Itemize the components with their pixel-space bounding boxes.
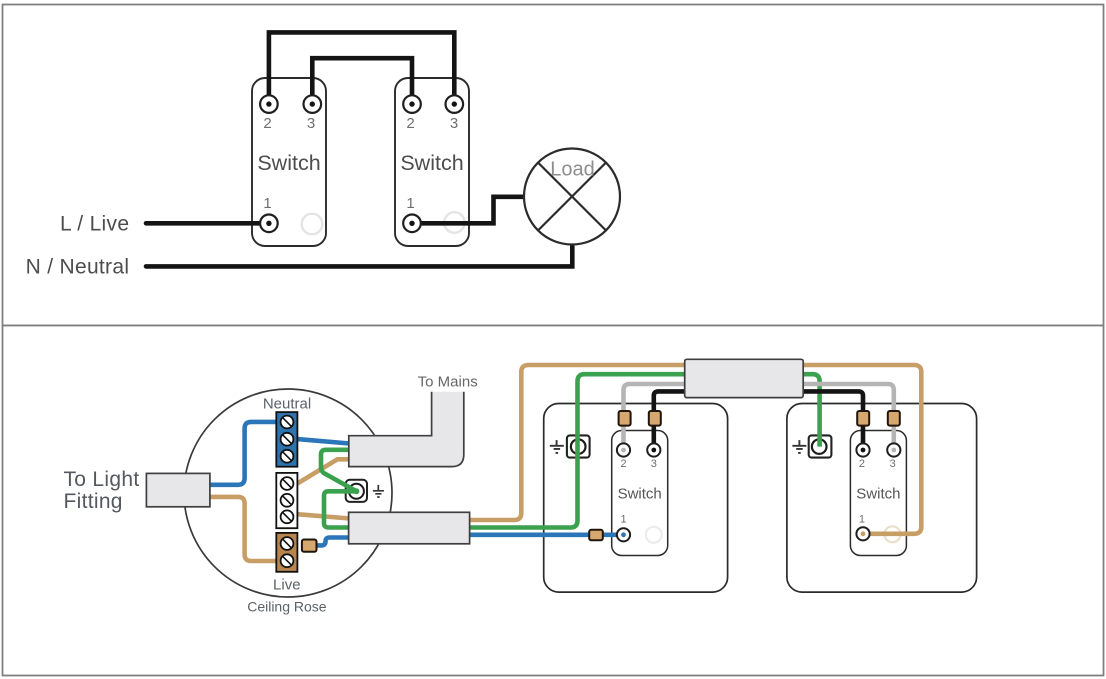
svg-text:Switch: Switch — [257, 151, 320, 175]
svg-text:2: 2 — [263, 115, 271, 132]
svg-text:Live: Live — [273, 577, 301, 594]
mains conduit (elbow) — [349, 392, 464, 467]
light fitting cable — [146, 473, 210, 506]
wire: green earth conduit2 to SW1 earth to junction to SW2 earth — [469, 374, 820, 527]
SW1 terminal 2 — [617, 443, 630, 456]
svg-text:Fitting: Fitting — [64, 490, 123, 513]
wire: blue light-fitting neutral to rose neutral block — [210, 422, 276, 485]
rose live connector bead — [302, 540, 317, 552]
svg-text:1: 1 — [263, 195, 271, 212]
wire: blue rose neutral block to mains conduit — [297, 439, 349, 443]
middle block screws — [281, 477, 294, 523]
switch S1 terminal 3 — [304, 95, 322, 113]
switch S1 terminal 1 — [260, 215, 278, 233]
wire: S1 pin2 to S2 pin3 (strapper, upper) — [269, 32, 454, 104]
svg-text:To Light: To Light — [64, 468, 140, 491]
switch S1 terminal 2 — [260, 95, 278, 113]
ceiling rose circle — [184, 389, 392, 597]
svg-text:N / Neutral: N / Neutral — [26, 256, 130, 279]
SW1 terminal 1 — [617, 528, 630, 541]
plate 1 earth symbol — [550, 440, 564, 453]
svg-text:2: 2 — [859, 458, 865, 470]
svg-text:1: 1 — [620, 514, 626, 526]
rose middle block — [276, 473, 297, 528]
live block screws — [281, 537, 294, 567]
bottom panel frame — [3, 326, 1104, 676]
switch S2 terminal 3 — [446, 95, 464, 113]
ceiling rose earth symbol — [373, 485, 384, 497]
plate 2 earth symbol — [792, 440, 806, 453]
svg-text:Neutral: Neutral — [263, 396, 311, 413]
switch S1 unused terminal (ghost) — [302, 214, 323, 235]
load lamp cross — [538, 163, 606, 231]
SW1 terminal 3 — [647, 443, 660, 456]
switch S1 body — [252, 78, 326, 246]
svg-text:Switch: Switch — [618, 486, 662, 503]
svg-text:Load: Load — [550, 159, 595, 181]
wire: neutral to load — [146, 245, 572, 267]
switch SW2 body — [850, 431, 906, 556]
top panel frame — [3, 5, 1104, 326]
svg-text:2: 2 — [406, 115, 414, 132]
svg-text:3: 3 — [450, 115, 458, 132]
wire: green earth rose earth to switch conduit — [324, 491, 356, 527]
svg-text:L / Live: L / Live — [60, 213, 129, 236]
svg-text:Switch: Switch — [856, 486, 900, 503]
svg-text:3: 3 — [890, 458, 896, 470]
svg-text:3: 3 — [651, 458, 657, 470]
svg-text:3: 3 — [307, 115, 315, 132]
wire: S2 pin1 to load — [412, 197, 525, 224]
SW1 unused terminal (ghost) — [646, 527, 662, 543]
svg-text:1: 1 — [406, 195, 414, 212]
bead on SW2 grey wire — [888, 411, 900, 426]
switch SW1 body — [612, 431, 668, 556]
wire: brown switch feed loop conduit2 to SW2 pin1 — [469, 365, 922, 534]
SW2 terminal 3 — [887, 443, 900, 456]
wire: green earth mains conduit to rose earth — [321, 450, 356, 492]
svg-text:2: 2 — [620, 458, 626, 470]
wire: brown rose middle block to switch conduit — [297, 514, 349, 518]
green dot at rose earth — [353, 488, 359, 494]
svg-text:To Mains: To Mains — [418, 374, 478, 391]
switch S2 body — [395, 78, 469, 246]
wire: brown light-fitting live to rose live block — [210, 497, 277, 561]
wire: live feed to S1 pin1 — [146, 221, 269, 226]
svg-text:Ceiling Rose: Ceiling Rose — [247, 599, 327, 615]
wire: blue rose live connector to switch conduit — [317, 538, 350, 546]
bead on blue switched-live wire — [589, 530, 603, 541]
switch S2 terminal 2 — [403, 95, 421, 113]
svg-text:1: 1 — [859, 514, 865, 526]
rose neutral block — [276, 412, 297, 467]
rose live block — [276, 533, 297, 572]
bead on SW2 black wire — [857, 411, 869, 426]
wire: S1 pin3 to S2 pin2 (strapper, lower) — [312, 58, 412, 104]
plate 2 earth terminal — [809, 435, 832, 457]
switch conduit — [349, 512, 470, 544]
wire: grey strapper SW1 pin2 to junction to SW2 pin3 — [624, 384, 894, 450]
svg-text:Switch: Switch — [400, 151, 463, 175]
switch plate 2 — [787, 404, 977, 593]
SW2 unused terminal (ghost) — [884, 526, 900, 542]
wire: blue switched live conduit2 to SW1 pin1 — [469, 532, 624, 537]
switch S2 terminal 1 — [403, 215, 421, 233]
neutral block screws — [281, 416, 294, 463]
junction box — [685, 359, 804, 397]
SW2 terminal 1 — [856, 527, 869, 540]
switch S2 unused terminal (ghost) — [444, 212, 465, 233]
bead on SW1 grey wire — [619, 411, 631, 426]
plate 1 earth terminal — [567, 435, 590, 457]
SW2 terminal 2 — [856, 443, 869, 456]
load lamp circle — [524, 149, 620, 245]
bead on SW1 black wire — [649, 411, 661, 426]
ceiling rose earth terminal — [346, 480, 367, 502]
wire: black strapper SW1 pin3 to junction to SW2 pin2 — [654, 391, 863, 450]
wire: brown rose middle block to mains conduit — [297, 459, 349, 483]
switch plate 1 — [544, 404, 728, 593]
